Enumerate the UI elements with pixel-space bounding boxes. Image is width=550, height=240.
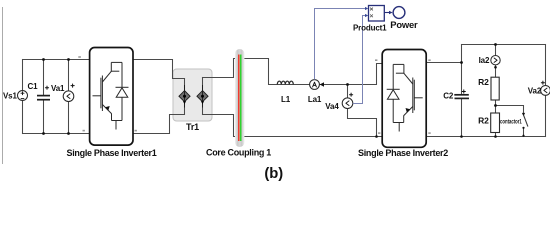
svg-text:C2: C2 [443, 92, 454, 101]
svg-text:Va2: Va2 [528, 87, 542, 96]
svg-text:Core Coupling 1: Core Coupling 1 [206, 148, 271, 158]
svg-text:La1: La1 [308, 95, 322, 104]
svg-text:L1: L1 [281, 95, 291, 104]
svg-text:R2: R2 [478, 77, 489, 87]
svg-text:contactor1: contactor1 [500, 118, 522, 125]
svg-text:Va1: Va1 [51, 84, 65, 93]
svg-text:Ia2: Ia2 [479, 56, 490, 65]
svg-text:Product1: Product1 [353, 23, 387, 32]
svg-text:Vs1: Vs1 [3, 92, 17, 101]
svg-text:Single Phase Inverter1: Single Phase Inverter1 [67, 148, 157, 158]
svg-text:R2: R2 [478, 116, 489, 126]
svg-text:(b): (b) [264, 166, 283, 182]
svg-text:Va4: Va4 [325, 102, 339, 111]
svg-text:Power: Power [390, 19, 418, 30]
svg-text:Single Phase Inverter2: Single Phase Inverter2 [358, 148, 448, 158]
svg-text:Tr1: Tr1 [186, 122, 199, 132]
svg-text:C1: C1 [28, 82, 39, 91]
